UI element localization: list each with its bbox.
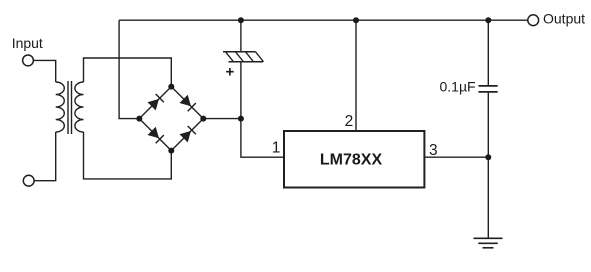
diode D4 cathode bar [188, 126, 196, 134]
svg-text:2: 2 [345, 113, 354, 130]
wire pin 2 to rail [355, 20, 357, 131]
junction node bridge top vertex [168, 84, 174, 90]
junction node bridge left vertex [136, 116, 142, 122]
junction node bridge right vertex [200, 116, 206, 122]
wire pin 3 to output node [424, 156, 488, 158]
junction node rail-cap [238, 17, 244, 23]
diode D1 cathode bar [156, 94, 164, 102]
diode D1 triangle [148, 99, 160, 111]
junction node rail-pin2 [353, 17, 359, 23]
wire 0.1uF top lead from rail [487, 20, 489, 85]
wire input lower to transformer primary [34, 132, 56, 181]
junction node pin3-output [485, 154, 491, 160]
svg-text:Output: Output [543, 11, 585, 27]
transformer T1 primary winding [56, 82, 65, 132]
transformer T1 secondary winding [75, 82, 84, 132]
wire filter cap bottom lead down to pin 1 [241, 62, 284, 157]
terminal Input upper circle [23, 55, 34, 66]
wire 0.1uF bottom lead down to ground [487, 93, 489, 238]
wire secondary bottom to bridge bottom vertex [84, 132, 172, 179]
junction node bridge bottom vertex [168, 148, 174, 154]
svg-text:0.1µF: 0.1µF [440, 79, 476, 95]
bridge rectifier diamond [139, 87, 203, 151]
diode D2 triangle [180, 95, 192, 107]
capacitor C1 electrolytic bottom plate [229, 61, 264, 63]
terminal Output circle [528, 15, 539, 26]
diode D4 triangle [180, 131, 192, 143]
wire filter cap top lead [240, 20, 242, 52]
wire bridge right vertex to node [203, 118, 241, 120]
wire top ground rail [119, 19, 528, 21]
svg-text:+: + [226, 64, 235, 81]
svg-text:3: 3 [429, 142, 438, 159]
wire input upper to transformer primary [33, 60, 55, 82]
regulator U1 box [284, 131, 424, 188]
capacitor C2 0.1uF plates [479, 86, 498, 92]
svg-text:Input: Input [12, 35, 43, 51]
wire secondary top to bridge top vertex [84, 58, 172, 87]
junction node cap-bridge [238, 116, 244, 122]
junction node rail-0.1uF [485, 17, 491, 23]
wire rail left drop to bridge left vertex [119, 20, 139, 118]
diode D2 cathode bar [188, 103, 196, 111]
transformer T1 core [68, 81, 72, 134]
ground symbol [474, 237, 503, 239]
diode D3 cathode bar [156, 135, 164, 143]
capacitor C1 electrolytic top plate [223, 51, 256, 53]
diode D3 triangle [148, 127, 160, 139]
svg-text:LM78XX: LM78XX [320, 152, 383, 169]
terminal Input lower circle [23, 175, 34, 186]
capacitor C1 hatch lines [226, 52, 264, 62]
svg-text:1: 1 [272, 140, 281, 157]
